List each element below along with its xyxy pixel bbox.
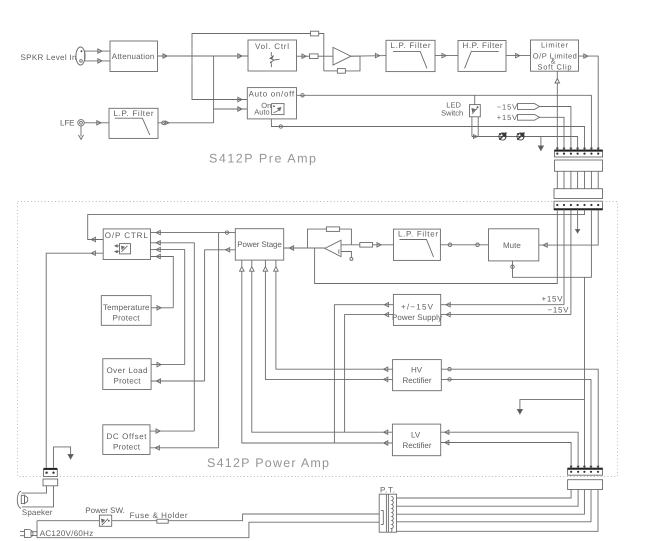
wire Over Load Protect top output: [151, 362, 185, 366]
connector C6 body: [568, 480, 603, 490]
wire CN4 pin4 to ground: [576, 210, 580, 233]
net label +15V: [542, 295, 564, 304]
svg-text:Spaeker: Spaeker: [22, 508, 53, 517]
block H.P. Filter: [458, 41, 506, 72]
connector CN3 body: [554, 189, 603, 199]
svg-text:LFE: LFE: [60, 119, 75, 128]
wire shield line down from Mute control line: [584, 277, 586, 468]
wire resistor R2 to op-amp U1: [318, 55, 333, 57]
svg-text:L.P. Filter: L.P. Filter: [398, 230, 438, 239]
block Limiter O/P Limited & Soft Clip: [531, 40, 579, 71]
wire HV Rectifier right b to C5: [441, 378, 591, 469]
block Vol. Ctrl: [248, 40, 297, 71]
svg-text:Attenuation: Attenuation: [112, 52, 155, 61]
wire Limiter bottom sense from pin1: [555, 71, 560, 150]
wire CN4 pin1 to op-amp output sense: [315, 210, 558, 284]
svg-text:L.P. Filter: L.P. Filter: [114, 109, 154, 118]
wire O/P CTRL p4 to Temperature out: [151, 254, 174, 308]
svg-text:Soft Clip: Soft Clip: [538, 62, 572, 71]
speaker SP1: [17, 491, 27, 508]
resistor R4 feedback: [326, 227, 339, 232]
svg-text:LV: LV: [411, 431, 421, 440]
svg-text:Vol. Ctrl: Vol. Ctrl: [255, 42, 289, 51]
svg-text:S412P Pre Amp: S412P Pre Amp: [209, 152, 316, 166]
block Attenuation: [110, 41, 158, 72]
block Temperature Protect: [101, 296, 151, 326]
svg-text:Auto: Auto: [254, 107, 269, 116]
wire supply +15V right to CN4 pin2: [441, 303, 564, 307]
svg-text:Power Supply: Power Supply: [392, 313, 442, 322]
LED D2: [517, 133, 524, 140]
block HV Rectifier: [393, 360, 442, 391]
wire Temperature Protect output: [151, 306, 173, 310]
wire LFE jack to L.P. Filter: [84, 121, 109, 125]
wire Power Stage LV pin c: [250, 260, 393, 434]
LED D1: [499, 133, 506, 140]
resistor R2 input: [310, 54, 319, 59]
wire U2 feedback top: [308, 229, 327, 248]
block LV Rectifier: [392, 424, 440, 456]
wire Auto on/off bottom output to pin5: [271, 119, 584, 150]
wire O/P CTRL p2 to DC Offset top: [151, 241, 195, 432]
wire LED switch tap from Auto output line: [474, 95, 476, 104]
node LFE label: [60, 119, 75, 128]
C5 wire end arrows: [570, 466, 600, 469]
wire AC hot to switch: [37, 520, 99, 522]
connector J1 XLR SPKR input: [76, 47, 85, 65]
svg-text:S412P Power Amp: S412P Power Amp: [207, 456, 329, 470]
switch S2 LED: [470, 105, 481, 117]
wire LV Rectifier right b to C5: [441, 440, 571, 468]
op-amp U2 power amp (left pointing): [325, 240, 341, 256]
svg-text:Protect: Protect: [113, 314, 141, 323]
wire Auto on/off top output to pin6: [297, 94, 592, 150]
wire Power Stage LV pin d: [240, 260, 393, 445]
block DC Offset Protect: [103, 425, 150, 455]
block L.P. Filter main: [386, 40, 435, 71]
wire node A up to summing resistor line: [192, 34, 311, 57]
node SPKR Level In label: [21, 53, 77, 62]
switch S1 inside Auto on/off: [272, 104, 284, 115]
ground on LED line: [538, 137, 543, 151]
svg-text:O/P CTRL: O/P CTRL: [105, 231, 149, 240]
wire LV Rectifier right a to C5: [441, 430, 578, 468]
wire supply -15V left to LV rail: [345, 312, 394, 432]
node speaker relay connector: [44, 469, 58, 477]
wire L.P. Filter to H.P. Filter: [435, 53, 458, 57]
wire CN4 pin2 to +15V rail: [563, 210, 565, 305]
C5 pin dots: [570, 471, 599, 473]
wire C6 pin4 to PT tap4: [397, 490, 592, 522]
block Auto on/off: [247, 88, 296, 119]
connector CN4 power-amp header: [554, 201, 603, 210]
resistor R3 feedback: [337, 69, 345, 74]
wire U2 minus input: [341, 244, 360, 246]
wire switch to fuse: [112, 520, 157, 522]
svg-text:+/−15V: +/−15V: [401, 302, 434, 311]
wire shield stub to ground arrow: [517, 400, 584, 414]
net label -15V: [548, 305, 570, 314]
svg-text:Over Load: Over Load: [107, 366, 148, 375]
wire R4 to U2 minus input: [340, 229, 352, 245]
svg-text:Power Stage: Power Stage: [237, 240, 282, 249]
connector CN1 preamp header: [555, 150, 603, 157]
power amp dashed boundary: [18, 202, 618, 477]
wire C6 pin1 to PT tap1: [397, 490, 572, 499]
wire R5 to L.P. Filter: [373, 243, 394, 247]
svg-text:Temperature: Temperature: [103, 303, 150, 312]
wire C6 pin5 to PT tap5: [397, 490, 599, 532]
wire XLR pin1 to Attenuation: [85, 49, 110, 53]
wire L.P. Filter to Mute: [440, 243, 488, 247]
wire Power Stage HV pin a: [274, 260, 393, 371]
connector CN2 body: [555, 160, 603, 171]
svg-text:H.P. Filter: H.P. Filter: [463, 41, 503, 50]
transformer P.T. label: [380, 486, 395, 495]
wire LED line to pin4: [472, 135, 578, 150]
wire U1 feedback loop: [345, 56, 360, 71]
wire branch node A down to Auto on/off input 1: [192, 56, 247, 102]
wire O/P CTRL p1 to Power Stage input 1: [151, 230, 236, 234]
wire O/P CTRL input 2 from speaker relay: [46, 251, 103, 468]
wire C6 pin3 to PT tap3: [397, 490, 585, 515]
wire DC Offset bottom input: [150, 446, 219, 450]
block O/P CTRL: [103, 229, 150, 260]
svg-text:Power SW.: Power SW.: [85, 506, 125, 515]
wire U2 plus input to ground: [339, 249, 353, 260]
wire branch node B down to Auto on/off input 2: [214, 56, 248, 111]
wire plug riser: [36, 521, 38, 538]
wire H.P. Filter to Limiter: [506, 53, 531, 57]
svg-text:AC120V/60Hz: AC120V/60Hz: [40, 529, 94, 538]
block L.P. Filter power amp: [394, 229, 441, 260]
wire CN4 pin5 to O/P CTRL input 1: [88, 210, 585, 242]
fuse F1: [157, 519, 168, 523]
svg-text:Protect: Protect: [114, 377, 142, 386]
wire relay chassis stub: [54, 447, 74, 468]
wire supply +15V left to LV rail: [334, 303, 393, 444]
wire Attenuation output to Vol. Ctrl: [158, 54, 249, 58]
svg-text:HV: HV: [411, 366, 423, 375]
svg-text:Limiter: Limiter: [541, 41, 569, 50]
node +15V supply tag: [497, 113, 540, 122]
wire L.P. Filter LFE output to node B: [158, 121, 214, 125]
wire Over Load bottom to Power Stage input 2: [205, 248, 236, 381]
wire Vol. Ctrl output to input resistor: [297, 54, 310, 58]
wire DC Offset top output: [150, 429, 194, 433]
switch S3 power: [99, 515, 111, 526]
wire CN4 pin6 to Mute control: [511, 210, 592, 278]
wire relay to speaker terminal 2: [22, 486, 54, 507]
block L.P. Filter LFE: [109, 108, 158, 138]
wire Over Load Protect bottom input: [151, 379, 205, 383]
svg-text:Protect: Protect: [113, 443, 141, 452]
svg-text:Rectifier: Rectifier: [403, 376, 432, 385]
wire supply -15V right to CN4 pin3: [441, 312, 571, 316]
ground at LFE jack: [79, 126, 84, 140]
CN1 wire end arrows: [556, 148, 600, 151]
AC plug P1: [20, 530, 37, 538]
wire fuse to PT primary top: [168, 514, 379, 521]
CN1 pin dots: [556, 153, 599, 155]
svg-text:Mute: Mute: [503, 241, 521, 250]
connector J2 RCA LFE input: [78, 120, 84, 126]
label S412P Pre Amp: [209, 152, 316, 166]
svg-text:SPKR Level In: SPKR Level In: [21, 53, 77, 62]
wire Limiter output to connector pin7: [579, 54, 599, 150]
wire HV Rectifier right a to C5: [441, 368, 598, 469]
resistor R5 input: [360, 243, 373, 248]
wire Power Stage output to op-amp U2: [284, 246, 325, 250]
resistor R1 top summing: [311, 31, 319, 36]
node Fuse & Holder label: [130, 511, 188, 520]
svg-text:Rectifier: Rectifier: [403, 441, 432, 450]
relay K1 inside O/P CTRL: [115, 244, 131, 254]
wire resistor R1 to op-amp input node: [319, 34, 324, 71]
wire CN4 pin7 to Mute input: [539, 210, 598, 248]
wire node B down to LFE line: [213, 109, 215, 123]
wire +15V to pin2: [540, 117, 565, 150]
block Power Stage: [235, 229, 283, 260]
connector C5 bottom header: [568, 468, 603, 475]
label S412P Power Amp: [207, 456, 329, 470]
node AC120V/60Hz label: [40, 529, 94, 538]
CN4 pin dots: [556, 204, 599, 206]
node Power SW. label: [85, 506, 125, 515]
svg-text:+15V: +15V: [542, 295, 564, 304]
node speaker relay body: [43, 479, 58, 486]
CN2 to CN3 pin links: [557, 171, 598, 188]
block Over Load Protect: [103, 359, 151, 390]
wire XLR pin2 to Attenuation: [85, 59, 110, 63]
wire -15V to pin3: [540, 107, 571, 151]
wire AC neutral to PT primary bottom: [37, 522, 379, 538]
svg-text:−15V: −15V: [497, 102, 518, 111]
svg-text:P.T.: P.T.: [380, 486, 395, 495]
wire DC Offset bottom junction riser: [218, 233, 220, 448]
block +/-15V Power Supply: [392, 294, 442, 325]
svg-text:Auto on/off: Auto on/off: [249, 89, 295, 98]
node Spaeker label: [22, 508, 53, 517]
wire C6 pin2 to PT tap2: [397, 490, 579, 507]
node LED Switch label: [441, 101, 463, 118]
wire CN4 pin3 to -15V rail: [570, 210, 572, 315]
wire LED switch outputs down to LED line: [472, 117, 478, 137]
op-amp U1 pre-amp: [333, 47, 351, 65]
svg-text:L.P. Filter: L.P. Filter: [391, 41, 431, 50]
node -15V supply tag: [497, 102, 540, 111]
wire Vol. Ctrl input arrow: [238, 54, 242, 58]
svg-text:−15V: −15V: [548, 305, 570, 314]
svg-text:DC Offset: DC Offset: [107, 432, 148, 441]
svg-text:Switch: Switch: [441, 109, 463, 118]
wire O/P CTRL p3 to Over Load top: [151, 247, 185, 364]
wire Power Stage HV pin b: [263, 260, 393, 382]
potentiometer symbol inside Vol. Ctrl: [270, 52, 280, 67]
svg-text:Fuse & Holder: Fuse & Holder: [130, 511, 188, 520]
block Mute: [489, 229, 539, 261]
wire relay to speaker terminal 1: [22, 486, 47, 493]
wire feedback resistor to input node: [324, 70, 338, 72]
wire U1 output to L.P. Filter: [351, 53, 386, 57]
transformer P.T.: [379, 494, 396, 532]
svg-text:+15V: +15V: [497, 113, 518, 122]
